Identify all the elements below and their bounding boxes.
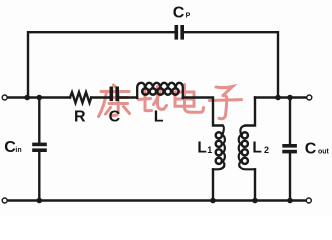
junction top rail tap <box>24 95 30 101</box>
inductor L2 <box>239 126 255 170</box>
capacitor Cout <box>282 144 297 153</box>
capacitor Cin <box>32 143 47 152</box>
wire Cin bottom <box>38 152 40 201</box>
svg-text:L: L <box>154 109 164 126</box>
inductor L <box>137 83 183 98</box>
resistor R <box>70 92 91 103</box>
junction Cin tap <box>37 95 43 101</box>
wire L1 bottom <box>212 169 214 200</box>
svg-text:2: 2 <box>264 145 269 155</box>
svg-text:out: out <box>318 148 330 155</box>
svg-text:C: C <box>109 109 121 126</box>
svg-text:L: L <box>197 140 206 157</box>
junction bottom Cin <box>37 198 43 204</box>
wire L2 bottom <box>254 169 256 200</box>
capacitor C <box>110 87 120 102</box>
svg-text:P: P <box>186 13 191 20</box>
node input top terminal <box>2 95 7 100</box>
junction bottom L2 <box>252 198 258 204</box>
inductor L1 <box>213 126 225 170</box>
wire C to L <box>119 96 137 98</box>
wire Cout bottom <box>289 153 291 200</box>
svg-text:L: L <box>252 140 261 157</box>
wire bottom rail <box>7 199 306 201</box>
wire main line input side <box>7 96 70 98</box>
junction Cout tap <box>287 95 293 101</box>
svg-text:C: C <box>305 140 317 157</box>
watermark char kang <box>99 85 130 117</box>
svg-text:C: C <box>4 139 16 156</box>
node output bottom terminal <box>306 198 311 203</box>
wire L to L1 top <box>183 98 223 126</box>
wire top rail right segment <box>184 32 278 97</box>
wire R to C <box>91 96 109 98</box>
capacitor CP <box>175 25 185 40</box>
svg-text:1: 1 <box>207 145 212 155</box>
junction bottom Cout <box>287 198 293 204</box>
svg-text:in: in <box>15 147 21 154</box>
wire L2 top <box>246 98 256 126</box>
watermark 康比电子 <box>99 85 242 119</box>
wire Cin top <box>38 98 40 143</box>
junction top rail right tap <box>275 95 281 101</box>
wire top rail left segment <box>28 32 175 97</box>
svg-text:C: C <box>173 5 185 22</box>
watermark char dian <box>175 85 204 113</box>
svg-text:R: R <box>74 109 86 126</box>
watermark char bi <box>139 87 167 111</box>
wire main line output side <box>255 96 307 98</box>
node output top terminal <box>307 95 312 100</box>
junction bottom L1 <box>210 198 216 204</box>
wire Cout top <box>289 98 291 145</box>
watermark char zi <box>209 87 241 119</box>
node input bottom terminal <box>2 198 7 203</box>
